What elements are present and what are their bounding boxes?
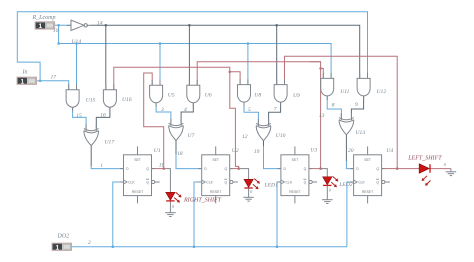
svg-text:U1: U1	[154, 148, 161, 154]
svg-text:8: 8	[332, 103, 335, 109]
svg-text:U5: U5	[168, 93, 175, 99]
svg-text:Q: Q	[376, 180, 379, 184]
svg-text:11: 11	[159, 162, 164, 168]
svg-text:0: 0	[329, 188, 332, 193]
svg-text:Q: Q	[376, 167, 379, 171]
svg-text:U2: U2	[232, 148, 239, 154]
svg-text:1: 1	[56, 244, 60, 251]
svg-text:Q: Q	[224, 167, 227, 171]
svg-text:LEFT_SHIFT: LEFT_SHIFT	[407, 156, 442, 162]
svg-text:2: 2	[88, 240, 91, 246]
svg-text:1: 1	[100, 164, 103, 169]
svg-text:9: 9	[355, 102, 358, 108]
svg-text:3: 3	[160, 107, 164, 113]
svg-text:U12: U12	[377, 89, 387, 95]
svg-text:U6: U6	[205, 93, 212, 99]
svg-text:U11: U11	[340, 89, 349, 95]
svg-text:Q: Q	[304, 180, 307, 184]
svg-text:Q: Q	[146, 167, 149, 171]
svg-text:19: 19	[254, 149, 260, 155]
svg-text:U3: U3	[310, 147, 317, 153]
svg-text:DO2: DO2	[57, 234, 70, 240]
svg-text:10: 10	[53, 28, 59, 34]
svg-text:RESET: RESET	[362, 190, 373, 194]
svg-text:CLK: CLK	[206, 180, 213, 184]
svg-text:CLK: CLK	[128, 180, 135, 184]
svg-text:12: 12	[242, 134, 248, 140]
svg-text:SET: SET	[212, 158, 219, 162]
svg-text:RESET: RESET	[289, 190, 300, 194]
svg-text:LED1: LED1	[264, 183, 279, 189]
svg-text:U16: U16	[122, 97, 132, 103]
svg-text:In: In	[22, 70, 28, 76]
svg-text:RIGHT_SHIFT: RIGHT_SHIFT	[183, 198, 222, 204]
svg-text:15: 15	[76, 113, 82, 119]
svg-text:Q: Q	[146, 180, 149, 184]
svg-text:CLK: CLK	[358, 180, 365, 184]
svg-text:U10: U10	[276, 133, 286, 139]
svg-text:1: 1	[21, 78, 25, 85]
svg-text:U17: U17	[105, 140, 115, 146]
svg-text:14: 14	[97, 21, 103, 27]
svg-text:U14: U14	[72, 39, 82, 45]
svg-text:17: 17	[51, 75, 57, 81]
svg-text:Q: Q	[224, 180, 227, 184]
svg-text:5: 5	[248, 107, 251, 113]
svg-text:13: 13	[319, 113, 325, 119]
svg-text:1: 1	[39, 23, 43, 30]
svg-text:4: 4	[184, 107, 187, 113]
svg-text:0: 0	[172, 204, 175, 209]
svg-text:Q: Q	[304, 167, 307, 171]
svg-text:U15: U15	[86, 98, 96, 104]
svg-text:0: 0	[444, 162, 447, 167]
svg-text:LED2: LED2	[338, 182, 353, 188]
svg-text:U4: U4	[386, 148, 393, 154]
svg-text:18: 18	[177, 151, 183, 157]
svg-text:D: D	[126, 167, 129, 171]
svg-text:D: D	[204, 167, 207, 171]
svg-text:CLK: CLK	[286, 180, 293, 184]
svg-text:D: D	[356, 167, 359, 171]
svg-text:16: 16	[100, 113, 106, 119]
svg-text:0: 0	[250, 189, 253, 194]
svg-text:SET: SET	[364, 158, 371, 162]
svg-text:SET: SET	[292, 158, 299, 162]
svg-text:U9: U9	[293, 93, 300, 99]
svg-text:U7: U7	[188, 133, 195, 139]
svg-text:20: 20	[348, 148, 354, 154]
svg-text:U8: U8	[254, 92, 261, 98]
svg-text:RESET: RESET	[210, 190, 221, 194]
svg-text:7: 7	[274, 107, 277, 113]
svg-text:U13: U13	[356, 130, 366, 136]
svg-text:SET: SET	[134, 158, 141, 162]
svg-text:RESET: RESET	[132, 190, 143, 194]
svg-text:R_Lcomp: R_Lcomp	[32, 15, 56, 21]
svg-text:D: D	[284, 167, 287, 171]
